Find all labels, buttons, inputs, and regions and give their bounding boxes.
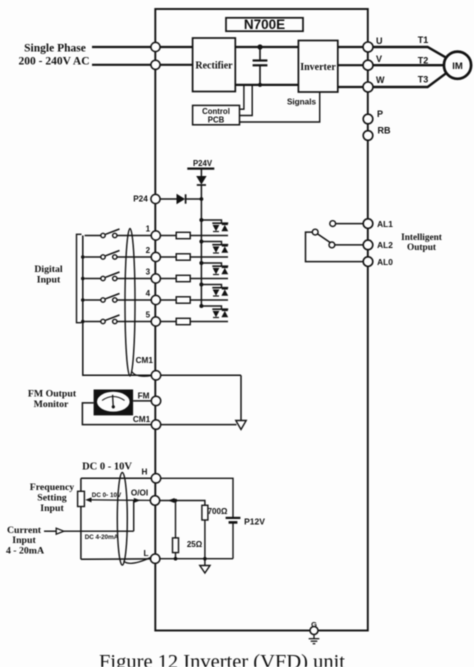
node opto bus row 3 [199, 261, 203, 265]
label Frequency Setting Input [30, 482, 75, 514]
resistor R2 [176, 254, 190, 260]
node common row4 [81, 298, 85, 302]
label Current Input 4-20mA [6, 525, 44, 557]
switch S1 [85, 229, 120, 238]
wire terminal 4 to resistor R4 [160, 299, 176, 301]
optocoupler PC2 [201, 242, 228, 254]
wire resistor R3 to opto [190, 278, 228, 280]
svg-text:O/OI: O/OI [131, 489, 148, 498]
svg-text:P: P [377, 109, 383, 119]
terminal 4 [146, 289, 161, 305]
shielded cable ellipse analog [117, 473, 127, 566]
wire 700ohm to ground [204, 520, 206, 566]
node opto bus row 5 [199, 304, 203, 308]
label Intelligent Output [401, 233, 443, 253]
capacitor DC link [253, 47, 268, 87]
node opto bus row 1 [199, 218, 203, 222]
diode D2 from P24 [160, 194, 201, 204]
svg-text:N700E: N700E [244, 17, 285, 32]
svg-text:IM: IM [452, 61, 463, 72]
wire opto supply bus [200, 199, 202, 306]
terminal U [363, 36, 383, 52]
relay pivot and blade [312, 229, 330, 243]
label Single Phase 200-240V AC [18, 43, 89, 68]
terminal V [363, 54, 382, 70]
switch S5 [85, 315, 120, 324]
terminal RB [363, 126, 391, 141]
wire AC line L1 [92, 46, 152, 48]
wire resistor R2 to opto [190, 256, 228, 258]
terminal W [363, 75, 385, 92]
svg-text:3: 3 [146, 268, 151, 277]
wire 25ohm to L row [175, 553, 177, 559]
svg-text:FM Output: FM Output [28, 389, 77, 400]
wire pivot to AL0 [306, 232, 363, 262]
wire L row right [160, 558, 233, 560]
wire O/OI to 700ohm [160, 501, 205, 506]
terminal AC input 1 [151, 42, 160, 51]
svg-text:700Ω: 700Ω [208, 507, 228, 516]
svg-text:Rectifier: Rectifier [195, 61, 233, 72]
wire resistor R4 to opto [190, 299, 228, 301]
optocoupler PC1 [201, 220, 228, 232]
wire analog box left [80, 478, 82, 559]
label FM Output Monitor [28, 389, 77, 411]
svg-text:DC 0 - 10V: DC 0 - 10V [82, 462, 132, 473]
ground earth symbol G [309, 635, 320, 644]
battery P12V [226, 517, 266, 559]
terminal AC input 2 [151, 60, 160, 69]
terminal 2 [146, 246, 161, 262]
wire analog box bottom [81, 558, 151, 560]
terminal L [143, 549, 159, 563]
svg-text:Single Phase: Single Phase [24, 43, 86, 55]
terminal CM1 upper [136, 356, 161, 380]
optocoupler PC5 [201, 306, 228, 318]
optocoupler PC3 [201, 263, 228, 275]
svg-text:5: 5 [146, 311, 151, 320]
wire 25ohm branch [175, 501, 177, 538]
bracket digital input group [77, 234, 82, 322]
svg-text:P24V: P24V [193, 159, 213, 168]
terminal 5 [146, 311, 161, 327]
terminal CM1 lower [133, 415, 161, 430]
svg-text:U: U [376, 36, 383, 46]
terminal P24 [133, 194, 160, 203]
svg-text:Setting: Setting [37, 493, 66, 504]
resistor R3 [176, 275, 190, 281]
inverter block [298, 41, 337, 93]
svg-text:Intelligent: Intelligent [401, 233, 443, 243]
node P24 junction [200, 197, 204, 201]
N700E label box [226, 17, 303, 32]
wire resistor R1 to opto [190, 235, 228, 237]
wire bus to PCB 2 [240, 85, 253, 116]
svg-text:1: 1 [146, 225, 151, 234]
svg-text:T3: T3 [418, 75, 429, 85]
switch S2 [85, 251, 120, 260]
ground chassis symbol right [236, 421, 246, 430]
inverter unit outer box [155, 9, 367, 631]
node 700ohm at L row [203, 557, 207, 561]
wire S1 to terminal 1 [117, 235, 151, 237]
wire pot wiper to O/OI [92, 499, 151, 502]
svg-text:PCB: PCB [208, 116, 225, 125]
svg-text:L: L [143, 549, 148, 558]
wire T1 to motor [373, 47, 446, 58]
wire signals PCB to inverter [240, 92, 320, 122]
terminal 3 [146, 268, 161, 284]
node 25ohm branch [174, 499, 177, 502]
svg-text:Input: Input [37, 275, 61, 286]
svg-text:CM1: CM1 [136, 356, 154, 365]
resistor 700 ohm [202, 505, 228, 520]
motor IM [444, 52, 471, 79]
wire CM1 to ground riser [161, 374, 241, 376]
wire meter to CM1 lower [82, 403, 151, 425]
wire to rectifier L2 [160, 64, 193, 66]
diode D1 from P24V rail [196, 169, 206, 199]
arrow into O/OI from right [168, 498, 175, 503]
relay contact AL1 [330, 221, 363, 227]
wire DC bus - [235, 84, 298, 86]
resistor 25 ohm [173, 538, 203, 553]
svg-text:25Ω: 25Ω [187, 540, 203, 549]
svg-text:AL0: AL0 [377, 257, 393, 267]
wire inverter to W [338, 86, 364, 88]
switch S3 [85, 272, 120, 281]
node 25ohm at L row [174, 557, 178, 561]
wire DC bus + [235, 46, 298, 48]
svg-text:4: 4 [146, 289, 151, 298]
meter FM output monitor [94, 390, 134, 416]
svg-text:CM1: CM1 [133, 415, 151, 424]
wire S4 to terminal 4 [117, 299, 151, 301]
wire meter to FM [133, 400, 151, 402]
wire CM1 lower to ground [161, 424, 237, 426]
svg-text:Monitor: Monitor [34, 399, 69, 410]
node opto bus row 4 [199, 283, 203, 287]
wire H to battery [161, 478, 233, 517]
node common row2 [81, 255, 85, 259]
optocoupler PC4 [201, 285, 228, 297]
svg-text:Inverter: Inverter [300, 62, 336, 73]
arrow into O/OI [134, 498, 141, 503]
wire terminal 5 to resistor R5 [160, 321, 176, 323]
wire switch common bus [83, 236, 152, 376]
svg-text:Output: Output [407, 243, 437, 253]
wire S3 to terminal 3 [117, 278, 151, 280]
svg-text:T2: T2 [418, 56, 429, 66]
wire S2 to terminal 2 [117, 256, 151, 258]
svg-text:FM: FM [138, 392, 150, 401]
svg-text:200 - 240V AC: 200 - 240V AC [18, 56, 89, 68]
svg-text:T1: T1 [418, 35, 429, 45]
wire S5 to terminal 5 [117, 321, 151, 323]
node common row3 [81, 277, 85, 281]
terminal O/OI [131, 489, 160, 506]
P24V supply rail [187, 159, 214, 169]
wire shield drain to CM1 [132, 371, 152, 376]
node opto bus row 2 [199, 240, 203, 244]
wire analog box top [81, 477, 151, 479]
svg-text:AL1: AL1 [377, 219, 393, 229]
wire inverter to U [338, 46, 364, 48]
svg-text:4 - 20mA: 4 - 20mA [6, 546, 44, 557]
node DC bus top [257, 44, 262, 49]
relay contact AL2 [329, 242, 363, 248]
terminal G [310, 620, 318, 635]
wire AC line L2 [92, 64, 152, 66]
wire inverter to V [338, 64, 364, 66]
terminal AL1 [363, 219, 393, 229]
terminal 1 [146, 225, 161, 241]
svg-text:P24: P24 [133, 195, 148, 204]
svg-text:Input: Input [12, 535, 36, 546]
wire current input [44, 500, 134, 534]
wire T3 to motor [373, 73, 446, 87]
svg-text:Input: Input [40, 503, 64, 514]
svg-text:V: V [376, 54, 382, 64]
switch S4 [85, 294, 120, 303]
resistor R5 [176, 318, 190, 324]
terminal H [142, 468, 161, 483]
svg-text:H: H [142, 468, 148, 477]
svg-text:Figure 12 Inverter (VFD) unit: Figure 12 Inverter (VFD) unit [99, 651, 345, 667]
terminal FM [138, 392, 161, 406]
svg-text:Frequency: Frequency [30, 482, 75, 493]
wire to rectifier L1 [160, 46, 193, 48]
ground chassis symbol analog [200, 566, 210, 574]
rectifier block [193, 38, 236, 92]
potentiometer frequency set [78, 491, 92, 506]
label Digital Input [34, 264, 63, 286]
svg-text:AL2: AL2 [377, 240, 393, 250]
resistor R1 [176, 232, 190, 238]
wire resistor R5 to opto [190, 321, 228, 323]
wire terminal 3 to resistor R3 [160, 278, 176, 280]
svg-text:DC 4-20mA: DC 4-20mA [85, 534, 119, 541]
svg-text:2: 2 [146, 246, 151, 255]
wire T2 to motor [373, 64, 444, 66]
control PCB block [193, 105, 240, 124]
resistor R4 [176, 297, 190, 303]
svg-text:P12V: P12V [244, 517, 265, 527]
svg-text:W: W [376, 75, 385, 85]
terminal P [363, 109, 383, 124]
node common row5 [81, 320, 85, 324]
wire terminal 2 to resistor R2 [160, 256, 176, 258]
shielded cable ellipse digital [125, 229, 135, 376]
wire shield drain to L [124, 558, 151, 564]
wire bus to PCB 1 [240, 85, 244, 109]
terminal AL0 [363, 257, 393, 267]
svg-text:Signals: Signals [287, 98, 317, 107]
svg-text:Digital: Digital [34, 264, 63, 275]
svg-text:RB: RB [378, 126, 391, 136]
terminal AL2 [363, 240, 393, 250]
wire terminal 1 to resistor R1 [160, 235, 176, 237]
wire ground riser [240, 375, 242, 420]
